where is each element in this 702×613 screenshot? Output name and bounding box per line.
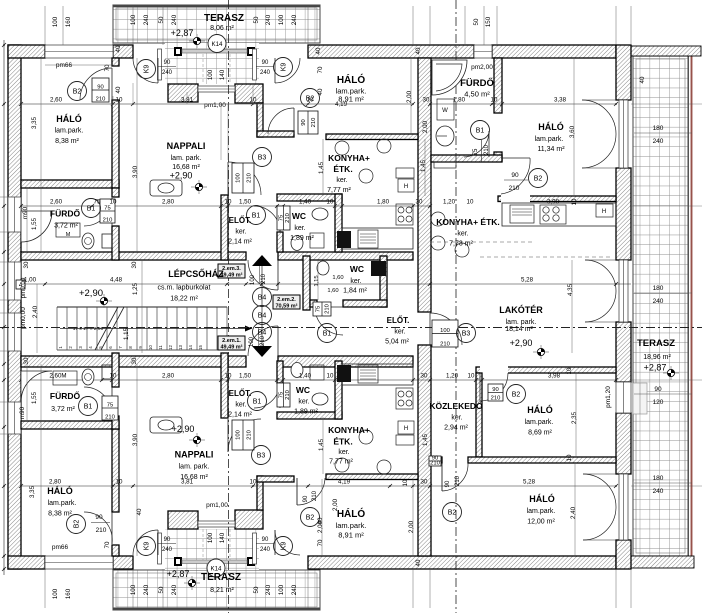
svg-text:2,14 m²: 2,14 m² [228, 412, 252, 419]
svg-text:1,20: 1,20 [443, 199, 456, 206]
svg-text:90: 90 [492, 387, 498, 393]
svg-text:KONYHA+ ÉTK.: KONYHA+ ÉTK. [436, 217, 500, 227]
svg-text:50: 50 [473, 18, 480, 25]
svg-text:210: 210 [247, 430, 253, 440]
svg-text:B3: B3 [257, 453, 266, 460]
svg-text:WC: WC [292, 211, 306, 221]
svg-text:K9: K9 [144, 65, 151, 74]
svg-text:ker.: ker. [394, 329, 405, 336]
svg-text:1,15: 1,15 [314, 275, 320, 286]
svg-text:4,19: 4,19 [335, 101, 348, 108]
svg-text:B1: B1 [476, 128, 485, 135]
svg-text:TERASZ: TERASZ [637, 338, 675, 349]
svg-text:10: 10 [148, 345, 153, 350]
svg-text:pm2,00: pm2,00 [471, 64, 493, 71]
svg-text:1,45: 1,45 [318, 161, 325, 174]
svg-text:1,40: 1,40 [299, 199, 312, 206]
svg-text:75: 75 [278, 215, 284, 221]
svg-text:10: 10 [110, 199, 117, 206]
svg-text:10: 10 [116, 479, 123, 486]
svg-text:3,81: 3,81 [181, 97, 194, 104]
svg-text:1,89 m²: 1,89 m² [294, 409, 318, 416]
svg-text:90: 90 [164, 537, 171, 543]
svg-text:11: 11 [158, 345, 163, 350]
svg-text:49,49 m²: 49,49 m² [220, 344, 242, 351]
svg-text:240: 240 [653, 488, 664, 495]
svg-text:+2,90: +2,90 [79, 288, 103, 299]
svg-text:B2: B2 [74, 520, 81, 529]
svg-text:2.em.3.: 2.em.3. [222, 266, 241, 272]
svg-text:TERASZ: TERASZ [204, 13, 244, 24]
svg-text:7,73 m²: 7,73 m² [449, 241, 473, 248]
svg-text:40: 40 [315, 47, 322, 54]
svg-text:10: 10 [566, 454, 573, 461]
svg-text:pm66: pm66 [52, 544, 69, 551]
svg-text:ker.: ker. [235, 402, 246, 409]
svg-text:+2,90: +2,90 [170, 171, 193, 181]
svg-text:ELŐT.: ELŐT. [229, 216, 252, 225]
svg-text:10: 10 [225, 373, 232, 380]
svg-text:5,04 m²: 5,04 m² [385, 339, 409, 346]
svg-text:KONYHA+: KONYHA+ [328, 153, 370, 163]
svg-text:240: 240 [143, 14, 150, 25]
svg-text:75: 75 [473, 148, 479, 155]
svg-text:3,98: 3,98 [547, 199, 560, 206]
svg-text:NAPPALI: NAPPALI [167, 141, 206, 151]
svg-text:B4: B4 [258, 330, 267, 337]
svg-text:pm0,00: pm0,00 [20, 277, 27, 298]
svg-text:100: 100 [207, 532, 214, 543]
svg-text:100: 100 [236, 430, 242, 440]
svg-text:210: 210 [261, 273, 267, 284]
svg-text:100: 100 [52, 588, 59, 599]
svg-text:210: 210 [484, 144, 490, 155]
svg-text:90: 90 [511, 172, 519, 179]
svg-text:10: 10 [307, 97, 314, 104]
svg-text:10: 10 [327, 373, 334, 380]
svg-text:B2: B2 [512, 392, 521, 399]
svg-text:3,72 m²: 3,72 m² [54, 223, 78, 230]
svg-text:240: 240 [291, 14, 298, 25]
svg-text:210: 210 [285, 390, 291, 400]
svg-text:240: 240 [265, 14, 272, 25]
svg-text:12: 12 [168, 345, 173, 350]
svg-text:50: 50 [253, 586, 260, 593]
svg-text:210: 210 [96, 97, 106, 103]
svg-text:2.em.2.: 2.em.2. [277, 297, 296, 303]
svg-text:lam. park.: lam. park. [171, 155, 202, 162]
svg-text:90: 90 [164, 60, 171, 66]
svg-text:lam.park.: lam.park. [525, 419, 554, 426]
svg-text:4,48: 4,48 [110, 277, 123, 284]
svg-text:240: 240 [143, 584, 150, 595]
svg-text:10: 10 [110, 373, 117, 380]
svg-text:HÁLÓ: HÁLÓ [337, 73, 366, 86]
svg-text:3,72 m²: 3,72 m² [51, 406, 75, 413]
svg-text:30: 30 [23, 357, 30, 364]
svg-text:B3: B3 [258, 155, 267, 162]
svg-text:240: 240 [162, 70, 173, 76]
svg-text:180: 180 [653, 475, 664, 482]
svg-text:B4: B4 [258, 295, 267, 302]
svg-text:2,00: 2,00 [408, 520, 415, 533]
svg-text:+2,90: +2,90 [172, 424, 195, 434]
svg-text:10: 10 [467, 199, 474, 206]
svg-text:8,69 m²: 8,69 m² [528, 430, 552, 437]
svg-text:75: 75 [104, 206, 110, 212]
svg-text:90: 90 [262, 60, 269, 66]
svg-text:240: 240 [171, 14, 178, 25]
svg-text:210: 210 [311, 118, 317, 128]
svg-text:75: 75 [94, 199, 101, 206]
svg-text:LAKÓTÉR: LAKÓTÉR [499, 304, 543, 315]
svg-text:8,21 m²: 8,21 m² [210, 587, 234, 594]
svg-text:90: 90 [262, 537, 269, 543]
svg-text:B3: B3 [462, 331, 471, 338]
svg-text:lam. park.: lam. park. [506, 319, 537, 326]
svg-text:100: 100 [207, 69, 214, 80]
svg-text:H: H [404, 426, 408, 432]
svg-text:3,81: 3,81 [181, 479, 194, 486]
svg-text:KONYHA+: KONYHA+ [328, 425, 370, 435]
svg-text:90: 90 [95, 514, 103, 521]
svg-text:210: 210 [105, 415, 115, 421]
svg-text:10: 10 [116, 97, 123, 104]
svg-text:LÉPCSŐHÁZ: LÉPCSŐHÁZ [168, 268, 224, 279]
svg-text:1,45: 1,45 [318, 438, 325, 451]
svg-text:210: 210 [285, 213, 291, 223]
svg-text:40: 40 [317, 517, 324, 524]
svg-text:m90: m90 [19, 406, 26, 419]
svg-text:ker.: ker. [235, 229, 246, 236]
svg-text:HÁLÓ: HÁLÓ [529, 493, 555, 504]
svg-text:B1: B1 [84, 404, 93, 411]
svg-text:HÁLÓ: HÁLÓ [47, 485, 73, 496]
svg-text:40: 40 [115, 86, 122, 93]
svg-text:90: 90 [97, 85, 103, 91]
svg-text:70: 70 [317, 66, 324, 73]
svg-text:50: 50 [253, 16, 260, 23]
svg-text:2,00: 2,00 [406, 90, 413, 103]
svg-text:ker.: ker. [350, 278, 361, 285]
svg-text:2,14 m²: 2,14 m² [228, 239, 252, 246]
svg-text:pm66: pm66 [56, 62, 73, 69]
svg-text:2,60M: 2,60M [49, 373, 66, 380]
svg-text:18,14 m²: 18,14 m² [505, 326, 533, 333]
svg-text:30: 30 [23, 261, 30, 268]
svg-text:lam. park.: lam. park. [179, 464, 210, 471]
svg-text:pm0,00: pm0,00 [20, 307, 27, 329]
svg-text:3,98: 3,98 [548, 373, 561, 380]
svg-text:1,55: 1,55 [31, 391, 38, 404]
svg-text:K14: K14 [211, 41, 223, 48]
svg-text:160: 160 [65, 16, 72, 27]
svg-text:140: 140 [219, 532, 226, 543]
svg-text:2,40: 2,40 [32, 305, 39, 318]
svg-text:H: H [404, 184, 408, 190]
svg-text:2,80: 2,80 [49, 479, 62, 486]
svg-text:70,59 m²: 70,59 m² [275, 303, 297, 310]
svg-text:B4: B4 [258, 313, 267, 320]
svg-text:100: 100 [130, 14, 137, 25]
svg-text:8,38 m²: 8,38 m² [48, 511, 72, 518]
svg-text:40: 40 [415, 559, 422, 566]
svg-text:2,60: 2,60 [50, 97, 63, 104]
svg-text:1,20: 1,20 [446, 373, 459, 380]
svg-text:10: 10 [468, 373, 475, 380]
svg-text:30: 30 [421, 373, 428, 380]
svg-text:40: 40 [115, 45, 122, 52]
svg-text:3,60: 3,60 [569, 125, 576, 138]
svg-text:1,40: 1,40 [299, 373, 312, 380]
svg-text:14: 14 [188, 345, 193, 350]
svg-text:2,60: 2,60 [50, 199, 63, 206]
svg-text:3,35: 3,35 [29, 485, 36, 498]
svg-text:+2,87: +2,87 [171, 28, 194, 38]
svg-text:ker.: ker. [294, 225, 305, 232]
svg-text:4,35: 4,35 [567, 283, 574, 296]
svg-text:240: 240 [265, 584, 272, 595]
svg-text:pm1,00: pm1,00 [204, 102, 226, 109]
svg-text:50: 50 [158, 16, 165, 23]
svg-text:7,77 m²: 7,77 m² [329, 459, 353, 466]
svg-text:lam.park.: lam.park. [535, 136, 564, 143]
svg-text:B2: B2 [73, 89, 82, 96]
svg-text:pm1,00: pm1,00 [206, 502, 228, 509]
svg-text:50: 50 [158, 586, 165, 593]
svg-text:140: 140 [219, 69, 226, 80]
svg-text:K9: K9 [144, 542, 151, 551]
svg-text:10: 10 [566, 367, 573, 374]
svg-text:40: 40 [415, 47, 422, 54]
svg-text:30: 30 [416, 199, 423, 206]
svg-text:210: 210 [509, 185, 520, 192]
svg-text:40: 40 [639, 76, 646, 83]
svg-text:240: 240 [291, 584, 298, 595]
svg-text:8,06 m²: 8,06 m² [210, 25, 234, 32]
svg-text:90: 90 [445, 480, 451, 487]
svg-text:TERASZ: TERASZ [201, 572, 241, 583]
svg-text:B1: B1 [87, 206, 96, 213]
svg-text:18,22 m²: 18,22 m² [170, 296, 198, 303]
svg-text:10: 10 [250, 97, 257, 104]
svg-text:K9: K9 [281, 542, 288, 551]
svg-text:ELŐT.: ELŐT. [387, 316, 410, 325]
svg-text:70: 70 [317, 539, 324, 546]
svg-text:lam.park.: lam.park. [55, 128, 84, 135]
svg-text:3,90: 3,90 [132, 165, 139, 178]
svg-text:2.em.1.: 2.em.1. [222, 338, 241, 344]
svg-text:pm1,20: pm1,20 [605, 386, 612, 408]
svg-text:10: 10 [402, 479, 409, 486]
svg-text:5,28: 5,28 [521, 277, 534, 284]
svg-text:2,00: 2,00 [422, 120, 429, 133]
svg-text:NAPPALI: NAPPALI [175, 450, 214, 460]
svg-text:1,55: 1,55 [31, 217, 38, 230]
svg-text:m90: m90 [22, 206, 29, 219]
svg-text:lam.park.: lam.park. [527, 508, 556, 515]
svg-text:10: 10 [571, 198, 578, 205]
svg-text:1,80: 1,80 [453, 97, 466, 104]
svg-text:2,80: 2,80 [162, 373, 175, 380]
svg-text:+2,87: +2,87 [644, 363, 667, 373]
svg-text:HÁLÓ: HÁLÓ [527, 404, 553, 415]
svg-text:K9: K9 [281, 63, 288, 72]
svg-text:FÜRDŐ: FÜRDŐ [50, 208, 81, 219]
svg-text:KÖZLEKEDŐ: KÖZLEKEDŐ [429, 400, 483, 411]
svg-text:3,90: 3,90 [132, 433, 139, 446]
svg-text:100: 100 [440, 328, 450, 334]
svg-text:70: 70 [104, 541, 111, 548]
svg-text:180: 180 [653, 285, 664, 292]
svg-text:30: 30 [421, 479, 428, 486]
svg-text:lam.park.: lam.park. [48, 500, 77, 507]
svg-text:HÁLÓ: HÁLÓ [56, 113, 82, 124]
svg-text:ker.: ker. [457, 231, 468, 238]
svg-text:1,84 m²: 1,84 m² [343, 288, 367, 295]
svg-text:cs.m. lapburkolat: cs.m. lapburkolat [158, 285, 211, 292]
svg-text:100: 100 [236, 173, 242, 183]
svg-text:7,77 m²: 7,77 m² [327, 187, 351, 194]
svg-text:2,40: 2,40 [570, 506, 577, 519]
svg-text:5,28: 5,28 [523, 479, 536, 486]
svg-text:240: 240 [653, 138, 664, 145]
svg-text:18,96 m²: 18,96 m² [643, 354, 671, 361]
svg-text:+2,87: +2,87 [167, 569, 190, 579]
svg-text:210: 210 [312, 490, 318, 501]
svg-text:10: 10 [225, 199, 232, 206]
svg-text:210: 210 [455, 475, 461, 486]
svg-text:2,00: 2,00 [332, 498, 339, 511]
svg-text:210: 210 [103, 218, 113, 224]
svg-text:B2: B2 [534, 176, 543, 183]
svg-text:1,50: 1,50 [239, 199, 252, 206]
svg-text:100: 100 [52, 16, 59, 27]
svg-text:1,45: 1,45 [422, 433, 429, 446]
svg-text:240: 240 [260, 70, 271, 76]
svg-text:210: 210 [430, 461, 440, 467]
svg-text:30: 30 [423, 97, 430, 104]
svg-text:12,00 m²: 12,00 m² [527, 519, 555, 526]
svg-text:M: M [66, 232, 71, 238]
svg-text:ÉTK.: ÉTK. [333, 437, 352, 447]
svg-text:3,38: 3,38 [554, 97, 567, 104]
svg-text:150: 150 [485, 16, 492, 27]
svg-text:lam.park.: lam.park. [336, 521, 367, 530]
svg-text:2,80: 2,80 [162, 199, 175, 206]
svg-text:240: 240 [162, 547, 173, 553]
svg-text:+2,90: +2,90 [510, 338, 533, 348]
svg-text:13: 13 [178, 345, 183, 350]
svg-text:ÉTK.: ÉTK. [333, 164, 352, 174]
svg-text:1,25: 1,25 [132, 282, 139, 295]
svg-text:2,94 m²: 2,94 m² [444, 425, 468, 432]
svg-text:210: 210 [491, 396, 501, 402]
svg-text:B1: B1 [323, 331, 332, 338]
svg-text:10: 10 [327, 199, 334, 206]
svg-text:1,60: 1,60 [332, 275, 343, 281]
svg-text:160: 160 [65, 588, 72, 599]
svg-text:100: 100 [250, 274, 256, 285]
svg-text:49,49 m²: 49,49 m² [220, 272, 242, 279]
svg-text:1,60: 1,60 [327, 288, 338, 294]
svg-text:75: 75 [278, 392, 284, 398]
svg-text:75: 75 [107, 403, 113, 409]
svg-text:240: 240 [653, 298, 664, 305]
svg-text:100: 100 [278, 14, 285, 25]
svg-text:FÜRDŐ: FÜRDŐ [50, 390, 81, 401]
svg-text:30: 30 [131, 357, 138, 364]
svg-text:15: 15 [198, 345, 203, 350]
svg-text:210: 210 [440, 342, 450, 348]
svg-text:40: 40 [317, 88, 324, 95]
svg-text:90: 90 [654, 386, 662, 393]
svg-text:HÁLÓ: HÁLÓ [337, 507, 366, 520]
svg-text:W: W [442, 108, 448, 114]
svg-text:8,91 m²: 8,91 m² [338, 531, 364, 540]
svg-text:WC: WC [350, 264, 364, 274]
svg-text:4,19: 4,19 [338, 479, 351, 486]
svg-text:WC: WC [296, 385, 310, 395]
svg-text:180: 180 [653, 125, 664, 132]
svg-text:10: 10 [250, 479, 257, 486]
svg-text:ker.: ker. [298, 399, 309, 406]
svg-text:4,50 m²: 4,50 m² [464, 90, 490, 99]
svg-text:100: 100 [278, 584, 285, 595]
svg-text:17 x 17 = 2,90: 17 x 17 = 2,90 [73, 326, 104, 332]
svg-text:1,50: 1,50 [239, 373, 252, 380]
svg-text:90: 90 [303, 495, 309, 502]
svg-text:1,89 m²: 1,89 m² [290, 235, 314, 242]
svg-text:210: 210 [96, 527, 107, 534]
svg-text:240: 240 [260, 547, 271, 553]
svg-text:1,15: 1,15 [123, 327, 130, 340]
svg-text:8,38 m²: 8,38 m² [55, 138, 79, 145]
svg-text:ELŐT.: ELŐT. [229, 389, 252, 398]
svg-text:240: 240 [171, 584, 178, 595]
svg-text:FÜRDŐ: FÜRDŐ [460, 77, 494, 89]
svg-text:HÁLÓ: HÁLÓ [538, 121, 564, 132]
svg-text:B2: B2 [306, 515, 315, 522]
svg-text:75: 75 [316, 306, 322, 312]
svg-text:90: 90 [301, 119, 307, 125]
svg-text:ker.: ker. [338, 449, 349, 456]
svg-text:11,34 m²: 11,34 m² [537, 146, 565, 153]
svg-text:ker.: ker. [451, 415, 462, 422]
svg-text:2,35: 2,35 [571, 411, 578, 424]
svg-text:10: 10 [491, 97, 498, 104]
svg-text:3,35: 3,35 [31, 116, 38, 129]
svg-text:B2: B2 [448, 510, 457, 517]
svg-text:B1: B1 [253, 399, 262, 406]
svg-text:30: 30 [131, 261, 138, 268]
svg-text:210: 210 [325, 304, 331, 314]
svg-text:120: 120 [653, 399, 664, 406]
svg-text:210: 210 [247, 173, 253, 183]
svg-text:1,45: 1,45 [420, 159, 427, 172]
svg-text:100: 100 [130, 584, 137, 595]
svg-text:H: H [602, 209, 606, 215]
svg-text:1,80: 1,80 [377, 199, 390, 206]
svg-text:B1: B1 [252, 213, 261, 220]
svg-text:ker.: ker. [336, 177, 347, 184]
